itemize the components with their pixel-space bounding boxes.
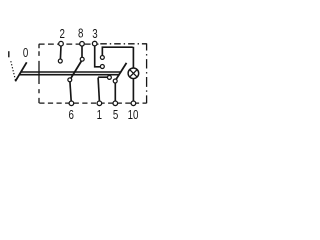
svg-text:8: 8: [78, 28, 83, 41]
svg-text:1: 1: [97, 109, 102, 122]
svg-text:6: 6: [68, 109, 73, 122]
svg-text:5: 5: [113, 109, 118, 122]
svg-text:0: 0: [23, 47, 28, 60]
svg-text:2: 2: [59, 28, 64, 41]
svg-text:3: 3: [92, 28, 97, 41]
svg-text:10: 10: [128, 109, 139, 122]
